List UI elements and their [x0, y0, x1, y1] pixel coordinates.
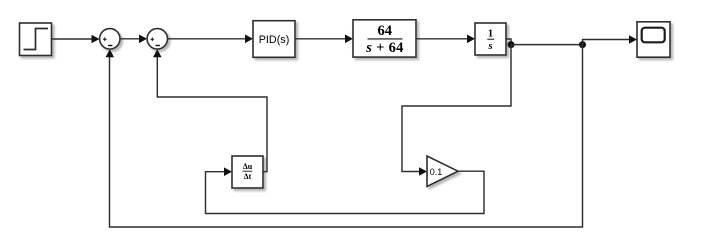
node A junction dot [508, 41, 515, 48]
svg-text:1: 1 [488, 29, 493, 40]
svg-text:PID(s): PID(s) [259, 34, 290, 46]
svg-text:Δt: Δt [244, 172, 252, 181]
wire step to sum1 [52, 35, 100, 44]
gain block 0.1 [427, 156, 458, 187]
wire transfer fn to integrator [416, 35, 475, 44]
svg-text:s: s [487, 41, 492, 52]
svg-text:0.1: 0.1 [430, 167, 443, 177]
node B junction dot [579, 41, 586, 48]
wire derivative to sum2 [153, 49, 267, 171]
wire PID to transfer fn [295, 35, 353, 44]
wire node B to scope [583, 35, 638, 44]
feedback wire node A to gain [402, 45, 511, 176]
summing junction 2 [147, 29, 167, 49]
svg-text:Δu: Δu [243, 162, 253, 171]
wire node A to node B [511, 44, 583, 46]
derivative block du/dt [232, 156, 263, 188]
wire gain to derivative [206, 167, 485, 213]
integrator block 1/s [475, 23, 506, 55]
feedback wire node B to sum1 [106, 45, 583, 227]
wire sum2 to PID [168, 35, 254, 44]
wire integrator to node A [506, 39, 511, 45]
wire sum1 to sum2 [120, 35, 147, 44]
scope block [637, 22, 670, 57]
step source block [20, 23, 52, 56]
transfer function block 64/(s+64) [353, 20, 416, 57]
svg-text:s + 64: s + 64 [365, 40, 403, 56]
summing junction 1 [100, 29, 120, 49]
svg-text:64: 64 [378, 23, 393, 39]
PID controller block [253, 21, 295, 58]
